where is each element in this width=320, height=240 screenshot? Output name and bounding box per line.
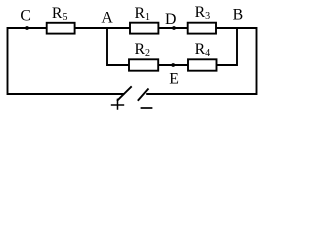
battery positive plate (left slash) <box>117 86 132 101</box>
battery + polarity sign <box>111 99 124 110</box>
svg-text:C: C <box>20 8 31 25</box>
wire: parallel branch A down, across R2–E–R4 row, up to B <box>107 28 237 65</box>
resistor R1 <box>130 23 158 34</box>
svg-text:R3: R3 <box>195 4 211 22</box>
svg-text:A: A <box>101 9 113 26</box>
svg-text:B: B <box>233 7 244 24</box>
junction dot at node C <box>25 26 29 30</box>
junction dot at node D <box>172 26 176 30</box>
resistor R4 <box>188 59 217 70</box>
svg-text:R2: R2 <box>135 41 151 59</box>
battery - polarity sign <box>141 107 153 109</box>
svg-text:R4: R4 <box>195 41 211 59</box>
resistor R5 <box>47 23 75 34</box>
battery negative plate (right slash) <box>138 89 149 101</box>
resistor R3 <box>188 23 216 34</box>
resistor R2 <box>129 59 158 70</box>
svg-text:D: D <box>165 11 176 28</box>
svg-text:R5: R5 <box>52 5 68 23</box>
junction dot at node E <box>171 63 175 67</box>
svg-text:E: E <box>169 71 179 88</box>
svg-text:R1: R1 <box>135 5 151 23</box>
wire: outer loop (top wire C–A–D–B, left side, right side, bottom with battery gap) <box>8 28 257 94</box>
